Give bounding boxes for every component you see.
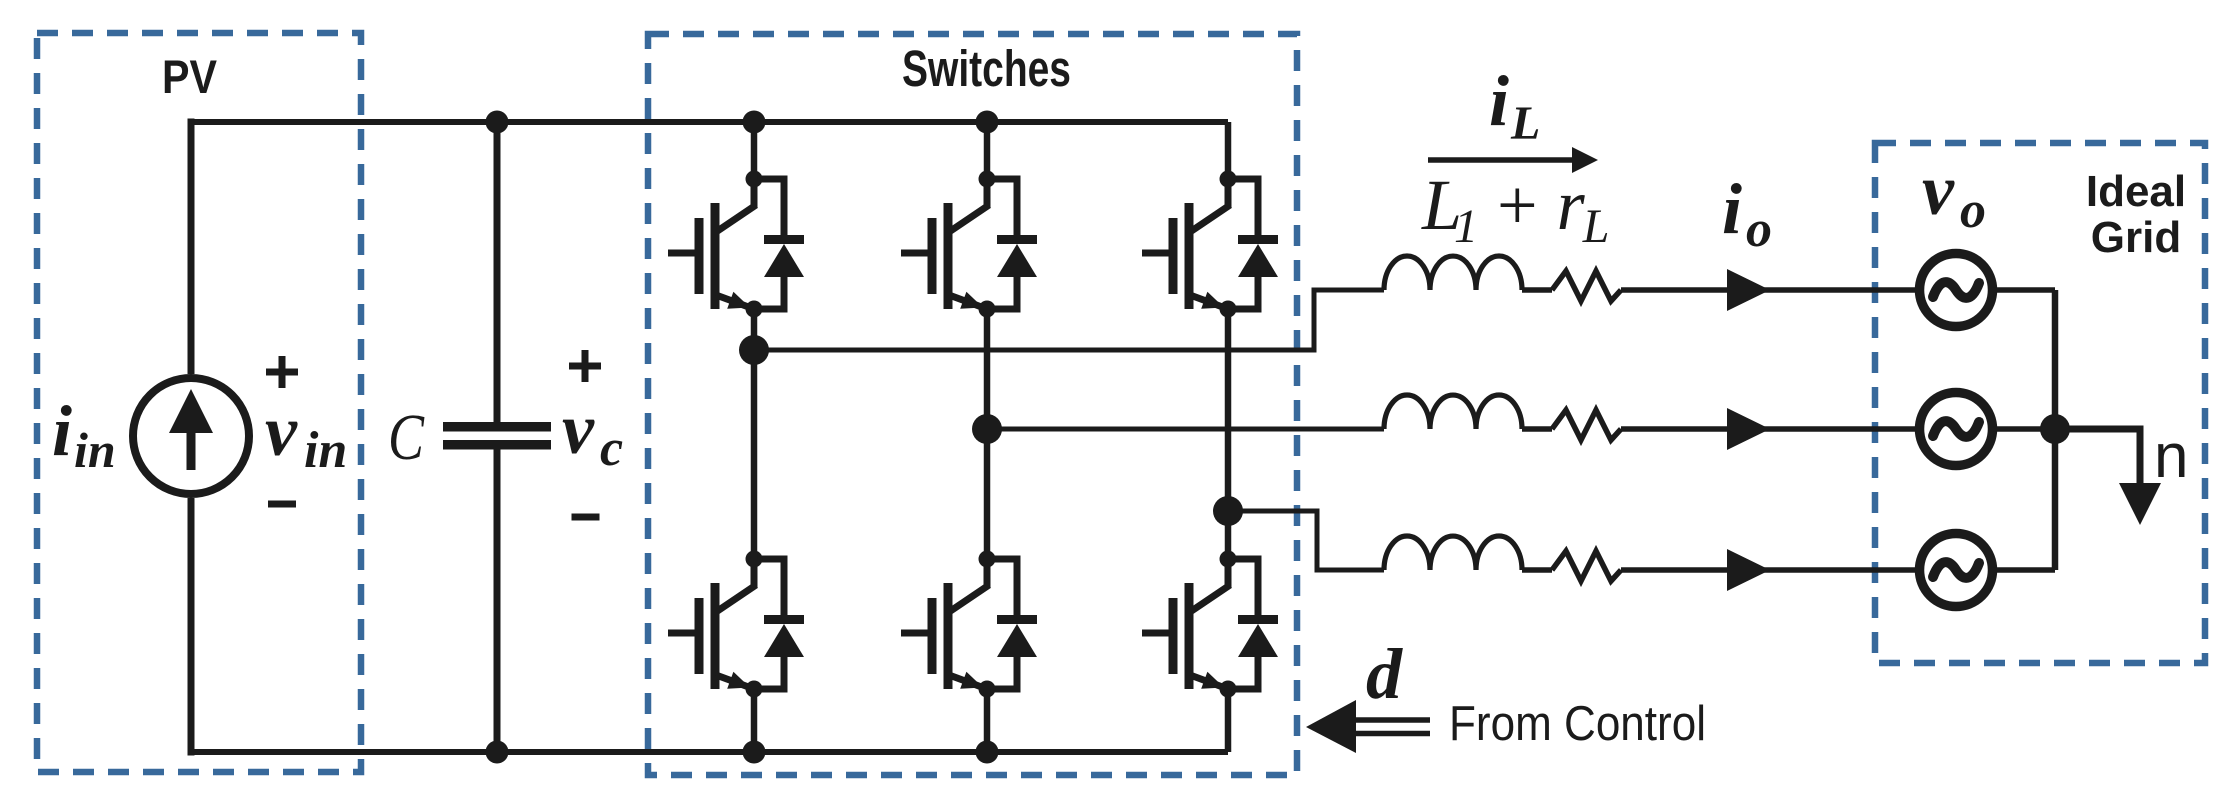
svg-text:Ideal: Ideal: [2086, 167, 2186, 216]
svg-text:C: C: [388, 401, 425, 474]
svg-text:From Control: From Control: [1449, 697, 1706, 751]
svg-text:Switches: Switches: [902, 40, 1071, 97]
svg-text:n: n: [2154, 422, 2188, 491]
svg-text:d: d: [1366, 634, 1403, 714]
svg-text:Grid: Grid: [2091, 213, 2181, 262]
svg-text:L1+rL: L1+rL: [1421, 165, 1609, 253]
svg-text:PV: PV: [162, 50, 218, 103]
